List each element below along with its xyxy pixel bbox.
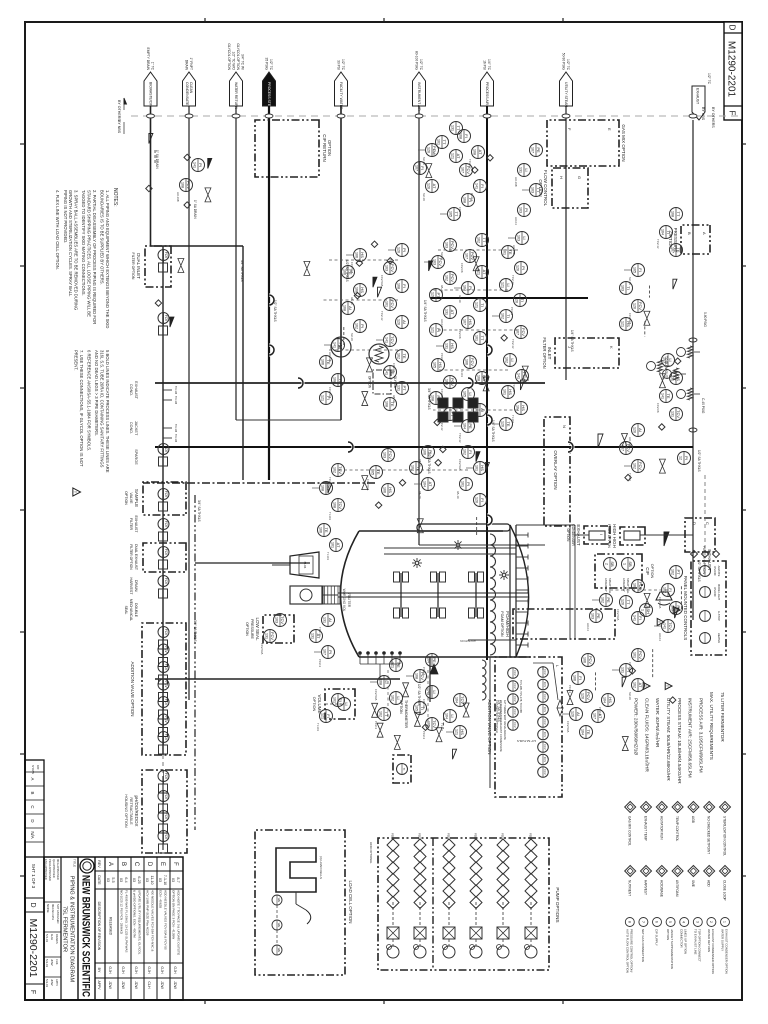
svg-text:AT: AT (638, 683, 643, 688)
svg-text:HS: HS (608, 697, 613, 703)
svg-text:1: 1 (640, 609, 644, 611)
svg-text:FCV: FCV (186, 181, 191, 189)
svg-text:102: 102 (500, 313, 504, 319)
svg-text:101: 101 (436, 139, 440, 145)
svg-text:OPTION: OPTION (124, 491, 128, 505)
svg-text:103: 103 (518, 207, 522, 213)
svg-text:UTILITY STEAM: 50LB/HR/22.68K: UTILITY STEAM: 50LB/HR/22.68KG/HR (666, 698, 671, 781)
svg-text:101: 101 (502, 389, 506, 395)
svg-text:1" SA DRAIN: 1" SA DRAIN (155, 150, 159, 169)
svg-text:PRESSURE CONTROL OPTION/: PRESSURE CONTROL OPTION/ (629, 929, 633, 973)
svg-text:FCV-53A: FCV-53A (616, 609, 620, 620)
svg-text:OPTION: OPTION (566, 529, 570, 543)
svg-text:WATER SUPPLY: WATER SUPPLY (721, 929, 725, 951)
svg-text:VALVE: VALVE (129, 492, 133, 504)
svg-text:8-7: 8-7 (176, 877, 180, 882)
svg-text:FCV: FCV (164, 491, 168, 498)
svg-text:5: 5 (668, 921, 672, 923)
svg-text:AT: AT (432, 184, 437, 189)
svg-text:3. SPRAY BALL ASSEMBLIES ARE: 3. SPRAY BALL ASSEMBLIES ARE TO BE REMOV… (74, 190, 79, 310)
svg-text:JDW: JDW (134, 981, 138, 989)
svg-text:FCV: FCV (164, 521, 168, 528)
svg-text:GLYCOL: GLYCOL (393, 376, 397, 389)
svg-text:HS: HS (360, 252, 365, 258)
svg-text:102: 102 (444, 275, 448, 281)
svg-text:120: 120 (474, 497, 478, 503)
svg-text:FI: FI (480, 184, 485, 188)
svg-text:FCV: FCV (164, 681, 168, 688)
svg-text:AT: AT (336, 543, 341, 548)
svg-text:PCV: PCV (450, 241, 455, 250)
svg-text:104: 104 (462, 423, 466, 429)
svg-text:120: 120 (514, 297, 518, 303)
svg-text:DRAIN: DRAIN (185, 60, 189, 71)
svg-text:101: 101 (330, 542, 334, 548)
svg-text:30 PSI: 30 PSI (337, 60, 341, 70)
svg-text:104: 104 (422, 481, 426, 487)
svg-text:TE: TE (666, 393, 671, 398)
svg-text:1/2" SA THXLS: 1/2" SA THXLS (517, 739, 536, 743)
svg-text:DUAL EXHAUST: DUAL EXHAUST (134, 544, 138, 570)
svg-text:C: C (705, 522, 710, 525)
svg-text:INSTRUMENT AIR: 2SCFM/56.6SLP: INSTRUMENT AIR: 2SCFM/56.6SLPM (688, 698, 693, 778)
svg-text:108: 108 (384, 401, 388, 407)
svg-text:PI: PI (328, 650, 333, 654)
svg-text:7. USE THESE CONNECTIONS, IF: 7. USE THESE CONNECTIONS, IF GLYCOL OPTI… (79, 350, 84, 467)
svg-text:JDW: JDW (50, 959, 54, 966)
svg-text:HV-19B: HV-19B (514, 177, 518, 187)
svg-text:103: 103 (432, 259, 436, 265)
svg-text:TO EXHAUST LINE: TO EXHAUST LINE (693, 929, 697, 955)
svg-text:102: 102 (396, 353, 400, 359)
svg-text:AUTO FLOW CONTROL OPTION: AUTO FLOW CONTROL OPTION (625, 929, 629, 973)
svg-text:TT: TT (676, 212, 681, 217)
svg-text:35 PSIG: 35 PSIG (265, 58, 269, 71)
svg-text:D: D (728, 25, 737, 31)
svg-text:108: 108 (378, 679, 382, 685)
svg-text:1/2" TC: 1/2" TC (341, 59, 345, 71)
svg-text:AT: AT (450, 310, 455, 315)
svg-text:GLYCOL OPTION: GLYCOL OPTION (227, 43, 231, 70)
svg-text:FILTER OPTION: FILTER OPTION (129, 544, 133, 570)
svg-text:OPTION: OPTION (666, 929, 670, 940)
svg-text:D: D (146, 862, 152, 867)
svg-text:VA-19: VA-19 (418, 491, 422, 499)
svg-text:108: 108 (430, 395, 434, 401)
svg-text:LI: LI (450, 714, 455, 717)
svg-text:PIPING IS NOT PROVIDED.: PIPING IS NOT PROVIDED. (63, 190, 68, 243)
svg-text:SAMPLE: SAMPLE (134, 489, 139, 507)
svg-text:HARVEST: HARVEST (644, 880, 648, 895)
svg-text:PCV: PCV (450, 274, 455, 283)
svg-text:GAS MIX OPTION: GAS MIX OPTION (621, 124, 626, 161)
svg-text:LI: LI (468, 392, 473, 395)
svg-text:FOAM/HIGH: FOAM/HIGH (505, 611, 510, 637)
svg-text:SPARGE: SPARGE (134, 449, 138, 465)
svg-text:120: 120 (570, 711, 574, 717)
svg-text:PI: PI (198, 163, 203, 167)
svg-text:105: 105 (432, 362, 436, 368)
svg-text:TCV: TCV (668, 622, 673, 630)
svg-text:PI: PI (468, 286, 473, 290)
svg-text:131: 131 (518, 167, 522, 173)
svg-text:TT: TT (454, 212, 459, 217)
svg-text:HS: HS (468, 319, 473, 325)
svg-text:141: 141 (516, 373, 520, 379)
svg-text:106: 106 (422, 449, 426, 455)
svg-text:DOUBLE: DOUBLE (134, 603, 138, 618)
svg-text:FCV-08: FCV-08 (656, 403, 660, 413)
svg-text:6: 6 (655, 921, 659, 923)
svg-text:FILTER OPTION: FILTER OPTION (131, 253, 135, 280)
svg-text:131: 131 (670, 375, 674, 381)
svg-text:3: 3 (695, 921, 699, 923)
svg-text:SB: SB (628, 561, 633, 567)
svg-text:1/2" SA THXLS: 1/2" SA THXLS (697, 560, 701, 582)
svg-text:121: 121 (430, 327, 434, 333)
svg-text:RELEASED: RELEASED (109, 917, 113, 936)
svg-text:FCV: FCV (638, 462, 643, 470)
svg-text:LOAD CELL OPTION: LOAD CELL OPTION (348, 880, 353, 923)
svg-text:FCV: FCV (164, 578, 168, 585)
svg-text:THERMOMETER: THERMOMETER (404, 700, 408, 729)
svg-text:FCV-53A: FCV-53A (260, 643, 264, 654)
svg-text:PT: PT (676, 569, 681, 575)
svg-text:105: 105 (414, 705, 418, 711)
svg-text:PROCESS AIR: 3.19SCFM/90SLPM: PROCESS AIR: 3.19SCFM/90SLPM (698, 698, 703, 773)
svg-text:101: 101 (474, 465, 478, 471)
svg-text:G: G (577, 176, 582, 179)
svg-text:131: 131 (322, 617, 326, 623)
svg-text:POWER: 230V/50/60HZ/1Ø: POWER: 230V/50/60HZ/1Ø (634, 698, 639, 755)
svg-text:HS: HS (360, 287, 365, 293)
svg-text:FCV: FCV (390, 264, 395, 272)
svg-text:131: 131 (444, 343, 448, 349)
svg-text:102: 102 (390, 695, 394, 701)
svg-text:WATER RETURN: WATER RETURN (234, 82, 238, 109)
svg-text:PE: PE (606, 597, 611, 603)
svg-text:121: 121 (474, 302, 478, 308)
svg-text:BY OTHERS: BY OTHERS (117, 100, 121, 121)
svg-text:120: 120 (632, 303, 636, 309)
svg-text:FCV: FCV (270, 632, 275, 640)
svg-text:1/2" SA THXLS: 1/2" SA THXLS (427, 452, 431, 474)
svg-text:PCV: PCV (420, 672, 425, 681)
svg-text:102: 102 (462, 449, 466, 455)
svg-text:E: E (159, 862, 165, 866)
svg-text:SHOWN: SHOWN (31, 765, 34, 774)
svg-text:ACID OPTIONAL: ACID OPTIONAL (369, 842, 373, 864)
svg-text:WE: WE (277, 948, 281, 953)
svg-text:108: 108 (670, 211, 674, 217)
svg-text:FCV-53A: FCV-53A (366, 479, 370, 490)
svg-text:NEW BRUNSWICK SCIENTIFIC: NEW BRUNSWICK SCIENTIFIC (80, 875, 92, 997)
svg-text:TI-101: TI-101 (432, 149, 436, 158)
svg-text:TCV: TCV (432, 720, 437, 728)
svg-text:PCV-3: PCV-3 (568, 685, 572, 694)
svg-text:GJH: GJH (134, 966, 138, 974)
svg-text:AT: AT (428, 482, 433, 487)
svg-text:106: 106 (582, 657, 586, 663)
svg-text:JDW: JDW (160, 981, 164, 989)
svg-text:D: D (29, 902, 36, 907)
svg-text:4: 4 (682, 921, 686, 923)
svg-text:FCV: FCV (164, 773, 168, 780)
svg-text:107: 107 (530, 147, 534, 153)
svg-text:D: D (30, 819, 35, 822)
svg-text:HOUSING OPTION: HOUSING OPTION (124, 794, 128, 828)
svg-text:PT: PT (402, 385, 407, 391)
svg-text:108: 108 (396, 283, 400, 289)
svg-text:102: 102 (504, 357, 508, 363)
svg-text:ADDITION VALVE OPTION: ADDITION VALVE OPTION (130, 661, 135, 716)
svg-text:LI: LI (344, 702, 349, 705)
svg-text:HV-19B: HV-19B (176, 192, 180, 202)
svg-text:108: 108 (414, 673, 418, 679)
svg-text:5-9-03: 5-9-03 (45, 959, 49, 968)
svg-text:1/2" SA THXLS: 1/2" SA THXLS (345, 260, 349, 282)
svg-text:TI-101: TI-101 (316, 723, 320, 732)
svg-text:ADD NOTE 7 TO PAGE 3 & UPDATE: ADD NOTE 7 TO PAGE 3 & UPDATE OUTSTG (177, 890, 181, 956)
svg-text:107: 107 (464, 253, 468, 259)
svg-text:108: 108 (462, 197, 466, 203)
svg-text:NO CHECKED SETPOINT: NO CHECKED SETPOINT (707, 816, 711, 854)
svg-text:HS: HS (480, 465, 485, 471)
svg-text:1/4" SA THXLS: 1/4" SA THXLS (497, 700, 501, 722)
svg-text:3/4" SA THXLS: 3/4" SA THXLS (240, 260, 244, 282)
svg-text:3/4" SA THXLS: 3/4" SA THXLS (193, 620, 197, 642)
svg-text:FCV: FCV (521, 328, 526, 336)
svg-text:FCV: FCV (164, 446, 168, 453)
svg-text:75 LITER: 75 LITER (347, 593, 351, 608)
svg-text:102: 102 (670, 569, 674, 575)
svg-text:M-04: M-04 (303, 562, 307, 569)
svg-text:141: 141 (474, 183, 478, 189)
svg-text:BY NBS: BY NBS (117, 120, 121, 134)
svg-text:1" TC: 1" TC (151, 62, 155, 71)
svg-text:N: N (562, 425, 567, 428)
svg-text:TCV-12: TCV-12 (458, 433, 462, 443)
svg-text:HV-04: HV-04 (586, 623, 590, 631)
svg-text:FCV: FCV (164, 664, 168, 671)
svg-text:120: 120 (426, 183, 430, 189)
svg-text:& pH/DO OPTIONS. ECN - 4007M: & pH/DO OPTIONS. ECN - 4007M (133, 890, 137, 938)
svg-text:105: 105 (632, 267, 636, 273)
svg-text:STERILIZATION CONTROL: STERILIZATION CONTROL (723, 816, 727, 856)
svg-text:108: 108 (332, 502, 336, 508)
svg-text:TE: TE (586, 729, 591, 734)
svg-text:FCV: FCV (164, 734, 168, 741)
svg-text:PRESSURE: PRESSURE (250, 619, 254, 639)
svg-text:FCV: FCV (164, 549, 168, 556)
svg-text:A: A (107, 862, 113, 866)
svg-text:PI: PI (684, 456, 689, 460)
svg-text:AND NO DEAD LEGS > 3 PIPE DIAM: AND NO DEAD LEGS > 3 PIPE DIAMETERS. (94, 350, 99, 436)
svg-text:SV-18: SV-18 (628, 692, 632, 700)
svg-text:1/4" TC: 1/4" TC (487, 59, 491, 71)
svg-text:108: 108 (320, 485, 324, 491)
svg-text:1. ALL PIPING AND EQUIPMENT W: 1. ALL PIPING AND EQUIPMENT WHICH EXTEND… (105, 190, 110, 328)
svg-text:NO-1025 12 PSI PCN - 2996KD: NO-1025 12 PSI PCN - 2996KD (120, 890, 124, 935)
svg-text:MAX. UTILITY REQUIREMENTS: MAX. UTILITY REQUIREMENTS (709, 692, 714, 760)
svg-text:FL-4595 WAS FLI-2963, 13-1125: FL-4595 WAS FLI-2963, 13-1125 SLPM WAS (125, 890, 129, 952)
svg-text:NONE: NONE (46, 904, 50, 913)
svg-text:TAGGED TO IDENTIFY SKID MATING: TAGGED TO IDENTIFY SKID MATING CONNECTIO… (81, 190, 86, 296)
svg-text:120: 120 (620, 599, 624, 605)
svg-text:SV-18: SV-18 (422, 193, 426, 201)
svg-text:75 LITER FERMENTOR: 75 LITER FERMENTOR (720, 692, 725, 742)
svg-text:102: 102 (632, 463, 636, 469)
svg-text:102: 102 (632, 682, 636, 688)
svg-text:LI: LI (524, 168, 529, 171)
svg-text:HS: HS (450, 343, 455, 349)
svg-text:ACID/BASE: ACID/BASE (659, 880, 663, 897)
svg-text:104: 104 (426, 657, 430, 663)
svg-text:UPDATE UTILITY REQUIREMENTS, G: UPDATE UTILITY REQUIREMENTS, GLYCOL (138, 890, 142, 955)
svg-text:107: 107 (670, 247, 674, 253)
svg-text:AGITATION: AGITATION (460, 639, 476, 643)
svg-text:PCV: PCV (588, 656, 593, 665)
svg-text:PE: PE (396, 662, 401, 668)
svg-text:J: J (567, 346, 572, 348)
svg-text:102: 102 (476, 237, 480, 243)
svg-text:104: 104 (602, 697, 606, 703)
svg-text:A: A (702, 232, 707, 235)
svg-text:131: 131 (264, 633, 268, 639)
svg-text:LINES UP OPTION: LINES UP OPTION (684, 929, 688, 954)
svg-text:VA-19: VA-19 (458, 295, 462, 303)
svg-text:107: 107 (322, 649, 326, 655)
svg-text:COND.: COND. (129, 384, 133, 396)
svg-text:103: 103 (382, 452, 386, 458)
svg-text:FCV: FCV (164, 252, 168, 259)
svg-text:CIP SUPPLY: CIP SUPPLY (655, 929, 659, 946)
svg-text:CLH: CLH (147, 981, 151, 989)
svg-text:TCV-12: TCV-12 (656, 239, 660, 249)
svg-text:108: 108 (342, 305, 346, 311)
svg-text:FCV: FCV (164, 833, 168, 840)
svg-text:LI: LI (384, 680, 389, 683)
svg-text:LI: LI (506, 283, 511, 286)
svg-text:103: 103 (620, 285, 624, 291)
svg-text:0-80 PSIG: 0-80 PSIG (703, 312, 707, 327)
svg-text:141: 141 (632, 615, 636, 621)
svg-text:LOW SEAL: LOW SEAL (255, 617, 260, 641)
svg-text:VA-19: VA-19 (456, 491, 460, 499)
svg-text:106: 106 (464, 359, 468, 365)
svg-text:M1290-2201: M1290-2201 (27, 919, 39, 978)
svg-text:HIGH HIGH: HIGH HIGH (612, 524, 617, 548)
svg-text:TO BLOWOUT: TO BLOWOUT (664, 356, 668, 377)
svg-text:FI: FI (638, 268, 643, 272)
svg-text:141: 141 (384, 337, 388, 343)
svg-text:HV-04: HV-04 (514, 217, 518, 225)
svg-text:121: 121 (390, 662, 394, 668)
svg-text:AI: AI (402, 320, 407, 324)
svg-text:104: 104 (580, 729, 584, 735)
svg-text:1/4" SA THXLS: 1/4" SA THXLS (570, 330, 574, 352)
svg-text:108: 108 (332, 377, 336, 383)
svg-text:3/4" SA THXLS: 3/4" SA THXLS (197, 500, 201, 522)
svg-text:03: 03 (145, 878, 149, 882)
svg-text:M: M (336, 345, 342, 349)
svg-text:N/A: N/A (30, 831, 35, 838)
svg-text:TT: TT (482, 238, 487, 243)
svg-text:104: 104 (454, 697, 458, 703)
svg-text:1/2" SA THXLS: 1/2" SA THXLS (697, 450, 701, 472)
svg-text:HARVEST: HARVEST (129, 578, 133, 596)
svg-text:JDW: JDW (121, 981, 125, 989)
svg-text:WE: WE (277, 923, 281, 928)
svg-text:FCV-53A: FCV-53A (374, 689, 378, 700)
svg-text:WORKING VOL: WORKING VOL (342, 589, 346, 612)
svg-text:PCV: PCV (450, 378, 455, 387)
svg-text:HS: HS (521, 405, 526, 411)
svg-text:102: 102 (600, 597, 604, 603)
svg-text:PCV-3: PCV-3 (374, 721, 378, 730)
svg-text:PANEL MOUNTED CONTROLS: PANEL MOUNTED CONTROLS (683, 576, 688, 641)
svg-text:SB: SB (610, 561, 615, 567)
svg-text:TI-101: TI-101 (511, 415, 515, 424)
svg-text:PRESENT.: PRESENT. (74, 350, 79, 370)
svg-text:105: 105 (462, 391, 466, 397)
svg-text:UTILITY STEAM: UTILITY STEAM (564, 82, 568, 107)
svg-text:AGB: AGB (691, 816, 695, 823)
svg-text:DRAIN/: DRAIN/ (134, 580, 138, 592)
svg-text:103: 103 (384, 265, 388, 271)
svg-text:TEMP CONTROL: TEMP CONTROL (675, 816, 679, 841)
svg-text:FCV: FCV (388, 451, 393, 459)
svg-text:106: 106 (572, 675, 576, 681)
svg-text:OVERLAY OPTION: OVERLAY OPTION (553, 450, 558, 489)
svg-text:6 REFERENCE ANSI/ISA-S5.1-19: 6 REFERENCE ANSI/ISA-S5.1-1984 FOR SYMBO… (87, 350, 92, 451)
svg-text:AT: AT (456, 154, 461, 159)
svg-text:PCV: PCV (586, 692, 591, 701)
svg-text:AT: AT (598, 714, 603, 719)
svg-text:HS: HS (460, 729, 465, 735)
svg-text:LI: LI (668, 358, 673, 361)
svg-text:104: 104 (444, 713, 448, 719)
svg-text:TT: TT (456, 126, 461, 131)
svg-text:1" SA DRAIN: 1" SA DRAIN (193, 200, 197, 219)
svg-text:F: F (728, 111, 737, 116)
svg-text:FI: FI (668, 588, 673, 592)
svg-text:NET GAS CONNECTION: NET GAS CONNECTION (641, 929, 645, 962)
svg-text:AI: AI (576, 712, 581, 716)
svg-text:MECHANICAL: MECHANICAL (129, 599, 133, 621)
svg-text:HV-04: HV-04 (658, 633, 662, 641)
svg-text:TI-101: TI-101 (326, 552, 330, 561)
svg-text:FCV: FCV (164, 315, 168, 322)
svg-text:PCV-3: PCV-3 (422, 731, 426, 740)
svg-text:PI: PI (521, 266, 526, 270)
svg-text:1/2" SA THXLS: 1/2" SA THXLS (417, 684, 421, 706)
svg-text:03: 03 (132, 878, 136, 882)
svg-text:103: 103 (274, 617, 278, 623)
svg-text:FCV-08: FCV-08 (460, 263, 464, 273)
svg-text:JDW: JDW (108, 981, 112, 989)
svg-text:(3) LOAD CELLS: (3) LOAD CELLS (319, 856, 323, 879)
svg-text:101: 101 (332, 697, 336, 703)
svg-text:120: 120 (500, 421, 504, 427)
svg-text:121: 121 (450, 153, 454, 159)
svg-text:EMPTY DRAIN: EMPTY DRAIN (146, 48, 150, 71)
svg-text:1/2" TC: 1/2" TC (566, 59, 570, 71)
svg-text:GJH: GJH (160, 966, 164, 974)
svg-text:CONNECTOR: CONNECTOR (680, 929, 684, 948)
svg-text:50-90 PSIG: 50-90 PSIG (562, 53, 566, 71)
svg-text:12: 12 (678, 456, 682, 460)
